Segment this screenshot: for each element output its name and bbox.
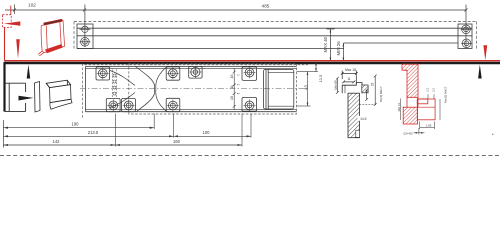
label 14.5 — [358, 116, 370, 121]
lug D1 with bolt — [242, 67, 257, 81]
extension line x=242 — [241, 114, 243, 147]
black arrow pointing right (channel) — [19, 96, 34, 101]
rail fixing hole left bottom — [80, 38, 91, 47]
svg-text:MAX 40: MAX 40 — [323, 36, 328, 52]
svg-text:Min 16: Min 16 — [397, 102, 401, 111]
RED SECTION: frame hatched bar — [402, 64, 418, 97]
svg-text:2.2: 2.2 — [432, 88, 436, 92]
svg-text:Min(3) M≥17: Min(3) M≥17 — [444, 86, 448, 103]
mounting plate dashed box — [129, 63, 297, 114]
svg-text:102: 102 — [28, 3, 36, 8]
rail fixing hole left top — [80, 5, 91, 48]
red section Min 16 label — [400, 99, 402, 121]
dimension 12.5 right — [311, 62, 319, 72]
rail fixing hole right bottom — [461, 39, 472, 48]
red section right vertical label — [439, 99, 441, 120]
extension line x=115 — [114, 114, 116, 147]
spring tube cylinder — [263, 69, 293, 109]
svg-text:142: 142 — [53, 139, 61, 144]
dimension 485 top — [85, 5, 468, 25]
extension line x=173.6 — [173, 114, 175, 138]
dimension 142 — [3, 144, 115, 146]
lug D2 with bolt — [242, 97, 257, 111]
pinion bolt top — [189, 66, 202, 78]
rail fixing hole right top — [461, 25, 472, 48]
dimension 160 — [115, 144, 242, 146]
svg-text:MIN 26: MIN 26 — [336, 41, 341, 56]
red section (20-45) dim — [414, 128, 425, 135]
ceiling / header thick line — [4, 62, 500, 65]
dimension MIN 26 — [343, 43, 458, 61]
lug B2 with bolt — [122, 98, 136, 111]
svg-text:Min 65: Min 65 — [334, 80, 338, 90]
casting waist curves — [110, 67, 167, 112]
bracket profile — [342, 83, 362, 94]
svg-text:16: 16 — [230, 96, 234, 100]
svg-text:190: 190 — [72, 122, 80, 127]
black perspective closer glyph — [46, 80, 72, 109]
lug A1 with bolt — [96, 67, 110, 80]
red jamb lower links — [407, 97, 418, 107]
svg-text:11: 11 — [347, 77, 351, 81]
SECTION VIEW (black) frame profile — [341, 71, 358, 85]
svg-text:1.95: 1.95 — [426, 123, 432, 127]
closer body outline top — [86, 65, 297, 67]
dimension 190 — [3, 127, 154, 129]
red section tiny dims — [428, 94, 434, 99]
plan view: left dashed edge — [82, 64, 84, 120]
dimension 11 — [344, 81, 354, 83]
dimension 43 right — [297, 72, 311, 107]
floor dashed line — [0, 155, 500, 157]
centerline — [80, 88, 310, 90]
svg-text:100: 100 — [203, 130, 211, 135]
dimension 23 — [365, 89, 368, 101]
svg-text:14.5: 14.5 — [360, 117, 367, 121]
dimension 213.5 — [3, 135, 173, 137]
red glyph closer body — [45, 44, 62, 53]
extension line left axis — [2, 120, 4, 148]
red closer body section — [417, 99, 435, 120]
red section bottom dim 14.5 — [420, 122, 435, 130]
red hinge axis vertical — [4, 27, 6, 61]
black arrow up (right) — [478, 65, 482, 79]
svg-text:2.3: 2.3 — [426, 88, 430, 92]
red hatched block lower — [403, 107, 417, 124]
svg-text:12.5: 12.5 — [318, 74, 323, 83]
extension line x=251 — [250, 114, 252, 138]
svg-text:Max 18: Max 18 — [345, 68, 356, 72]
slot column — [112, 70, 116, 99]
svg-text:160: 160 — [173, 139, 181, 144]
closer body outline bottom — [86, 111, 297, 113]
dimension Max 18 — [342, 72, 356, 74]
dimension MAX 40 — [327, 29, 335, 61]
dimension 102 top-left — [5, 5, 86, 15]
bracket hatched block — [362, 85, 368, 93]
svg-text:11: 11 — [230, 85, 234, 89]
svg-text:23: 23 — [370, 83, 374, 87]
slide rail dashed outline — [74, 22, 477, 49]
svg-text:16: 16 — [230, 75, 234, 79]
red arrow pointing down (left) — [16, 39, 20, 58]
lug B1 with bolt — [106, 98, 120, 111]
svg-text:8x(3) M≥17: 8x(3) M≥17 — [379, 86, 383, 102]
svg-text:(20-45): (20-45) — [403, 132, 412, 136]
black arrow up (left) — [27, 65, 31, 79]
wall mounting channel side view — [5, 83, 26, 111]
dimension Min 65 (left vertical) — [336, 77, 339, 94]
jamb hatched bar — [348, 93, 360, 138]
body inner lines — [86, 68, 297, 109]
red dashed pivot box — [2, 15, 11, 28]
red arrow pointing down (right) — [483, 45, 487, 60]
wall vertical thick line — [3, 63, 5, 112]
dimension 8x M17 (right vertical) — [360, 75, 377, 106]
slide rail body — [77, 24, 472, 49]
lug C2 with bolt — [166, 98, 180, 111]
closer body left edge — [85, 66, 87, 111]
svg-text:213.5: 213.5 — [88, 130, 99, 135]
svg-text:485: 485 — [262, 4, 270, 9]
dimension chain 16/11/16 — [233, 68, 240, 110]
red glyph rail bar — [44, 19, 63, 25]
door leaf edge (perspective) — [35, 82, 41, 113]
red perspective door glyph — [38, 19, 64, 55]
jamb bottom notch — [356, 130, 360, 137]
extension line x=154 — [153, 114, 155, 130]
red arrow pointing left — [4, 21, 20, 25]
red axis upper segment — [10, 6, 12, 16]
dimension 100 — [174, 135, 251, 137]
plan view top dashed line — [85, 64, 309, 66]
svg-text:43: 43 — [304, 85, 309, 90]
red transom reference line — [5, 60, 500, 62]
lug C1 with bolt — [166, 67, 180, 80]
stray mark — [492, 134, 493, 135]
